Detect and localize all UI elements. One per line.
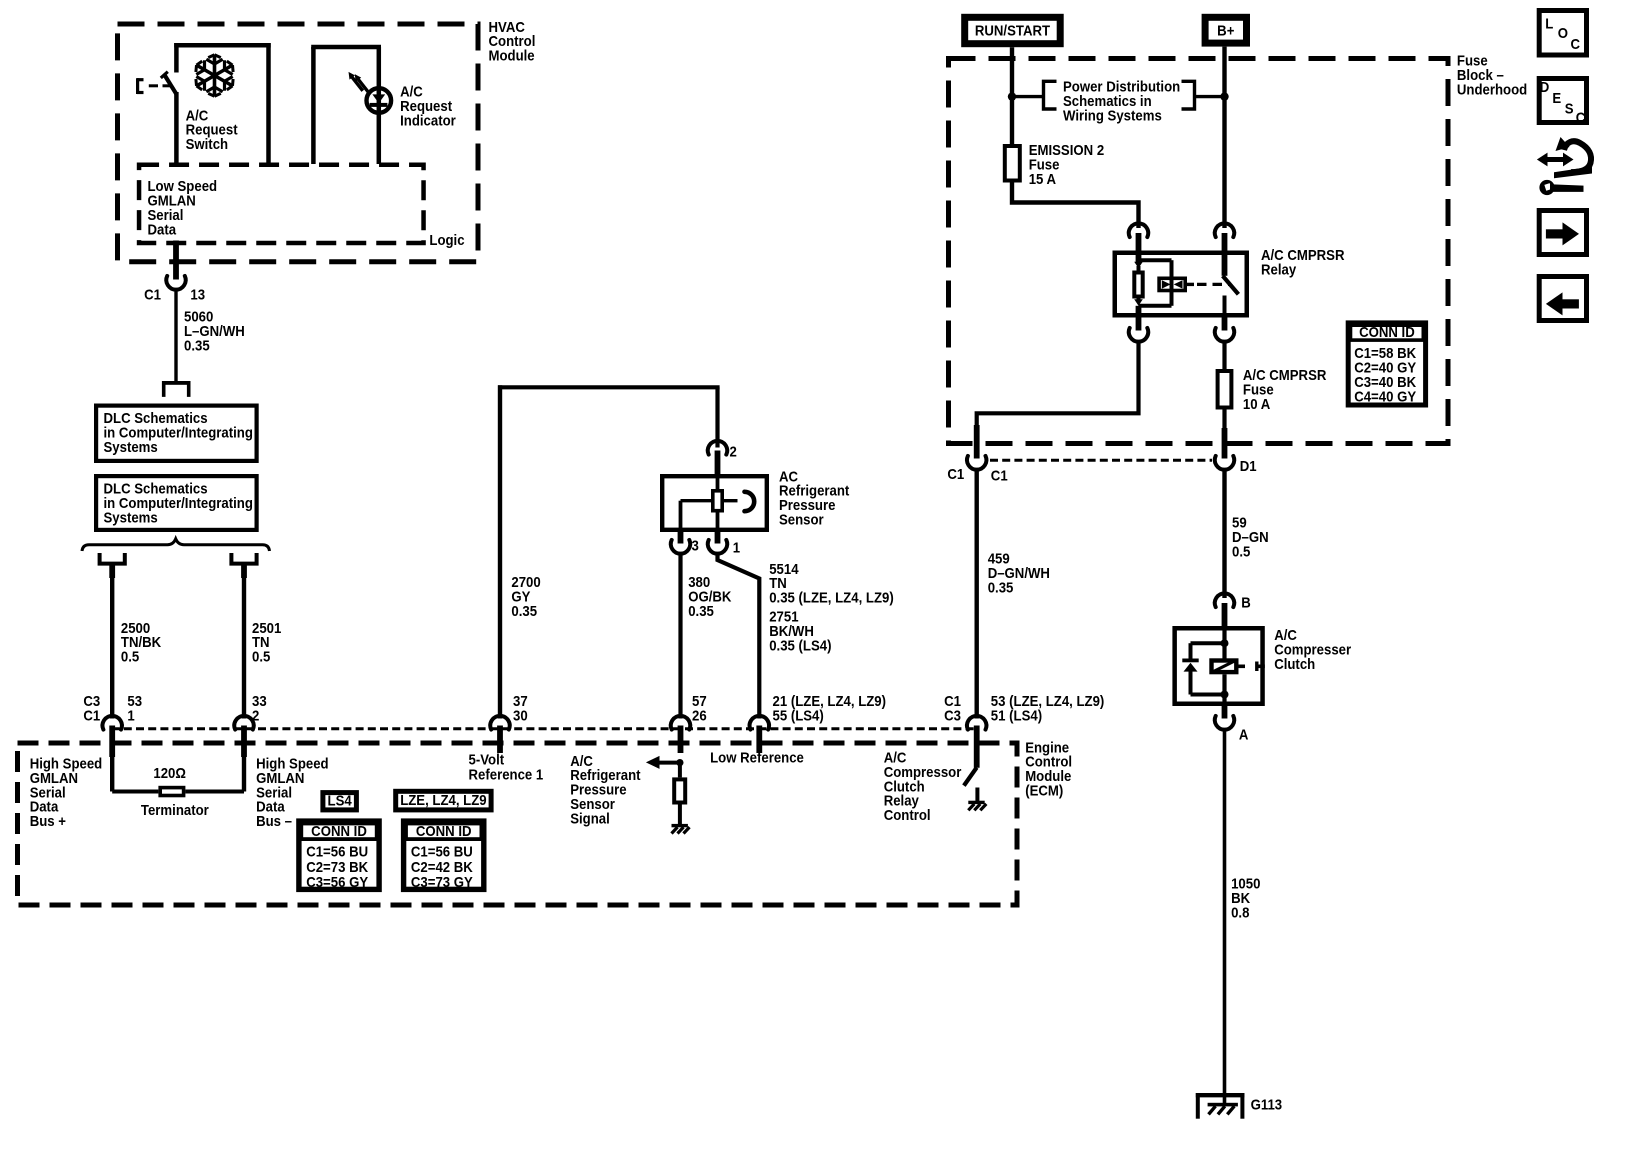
svg-text:CONN ID: CONN ID [416, 822, 472, 839]
svg-text:Signal: Signal [570, 810, 610, 827]
svg-text:B: B [1241, 593, 1251, 610]
svg-text:CONN ID: CONN ID [1359, 323, 1415, 340]
svg-text:0.5: 0.5 [252, 648, 270, 665]
svg-text:C1: C1 [947, 465, 964, 482]
svg-text:15 A: 15 A [1029, 170, 1056, 187]
svg-text:30: 30 [513, 707, 528, 724]
svg-text:3: 3 [692, 537, 699, 554]
svg-text:Terminator: Terminator [141, 801, 209, 818]
svg-text:C1: C1 [83, 707, 100, 724]
svg-text:55 (LS4): 55 (LS4) [773, 707, 824, 724]
svg-text:C4=40 GY: C4=40 GY [1354, 388, 1416, 405]
svg-text:C3=73 GY: C3=73 GY [411, 873, 473, 890]
svg-text:Module: Module [489, 47, 535, 64]
svg-text:2: 2 [730, 443, 737, 460]
svg-text:E: E [1552, 89, 1561, 106]
svg-text:C1: C1 [991, 467, 1008, 484]
svg-text:1: 1 [733, 538, 740, 555]
svg-text:26: 26 [692, 707, 707, 724]
svg-text:0.35: 0.35 [688, 602, 714, 619]
svg-text:0.8: 0.8 [1231, 903, 1249, 920]
svg-text:D: D [1540, 78, 1550, 95]
svg-text:10 A: 10 A [1243, 395, 1270, 412]
svg-text:0.35: 0.35 [988, 579, 1014, 596]
svg-text:RUN/START: RUN/START [975, 22, 1051, 39]
svg-text:Reference 1: Reference 1 [469, 766, 544, 783]
svg-text:51 (LS4): 51 (LS4) [991, 707, 1042, 724]
svg-text:0.35 (LS4): 0.35 (LS4) [769, 637, 831, 654]
svg-text:B+: B+ [1217, 22, 1234, 39]
svg-text:0.5: 0.5 [1232, 542, 1250, 559]
svg-text:O: O [1558, 24, 1568, 41]
svg-text:C: C [1571, 35, 1581, 52]
svg-text:0.35: 0.35 [184, 336, 210, 353]
svg-text:0.35: 0.35 [511, 602, 537, 619]
svg-text:Low Reference: Low Reference [710, 749, 804, 766]
svg-text:C1: C1 [144, 286, 161, 303]
svg-text:1: 1 [127, 707, 134, 724]
svg-text:C: C [1576, 109, 1586, 126]
svg-text:Systems: Systems [104, 438, 158, 455]
svg-text:Relay: Relay [1261, 261, 1296, 278]
svg-text:Underhood: Underhood [1457, 80, 1527, 97]
svg-text:LZE, LZ4, LZ9: LZE, LZ4, LZ9 [400, 791, 487, 808]
svg-text:C3: C3 [944, 707, 961, 724]
svg-text:D1: D1 [1240, 457, 1257, 474]
svg-text:Control: Control [884, 806, 931, 823]
svg-text:Logic: Logic [429, 231, 464, 248]
svg-text:Sensor: Sensor [779, 511, 824, 528]
svg-text:0.35 (LZE, LZ4, LZ9): 0.35 (LZE, LZ4, LZ9) [769, 589, 894, 606]
svg-text:Switch: Switch [186, 135, 228, 152]
svg-text:120Ω: 120Ω [153, 764, 186, 781]
svg-text:LS4: LS4 [328, 792, 352, 809]
svg-text:Bus +: Bus + [30, 812, 66, 829]
svg-text:13: 13 [190, 286, 205, 303]
svg-text:A: A [1239, 726, 1249, 743]
svg-text:C3=56 GY: C3=56 GY [306, 873, 368, 890]
svg-text:Systems: Systems [104, 509, 158, 526]
svg-text:G113: G113 [1251, 1096, 1283, 1113]
svg-text:CONN ID: CONN ID [311, 822, 367, 839]
svg-text:Bus –: Bus – [256, 812, 292, 829]
svg-text:Wiring Systems: Wiring Systems [1063, 107, 1162, 124]
svg-text:Clutch: Clutch [1274, 655, 1315, 672]
svg-text:Data: Data [148, 221, 177, 238]
svg-text:S: S [1565, 100, 1574, 117]
svg-text:L: L [1545, 14, 1553, 31]
svg-text:(ECM): (ECM) [1025, 782, 1063, 799]
svg-text:0.5: 0.5 [121, 648, 139, 665]
svg-text:Indicator: Indicator [400, 112, 456, 129]
